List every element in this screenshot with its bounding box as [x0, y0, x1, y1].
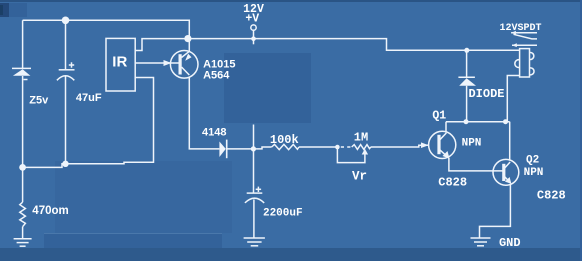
- zener Z5v minus tick: [24, 79, 28, 81]
- resistor 100k zigzag: [272, 144, 299, 149]
- svg-text:NPN: NPN: [524, 167, 544, 179]
- svg-text:DIODE: DIODE: [468, 87, 504, 101]
- wire: 470om top lead: [22, 167, 24, 202]
- transistor Q1 collector diagonal: [440, 133, 447, 140]
- svg-text:4148: 4148: [202, 127, 226, 139]
- diode DIODE cathode bar: [458, 76, 475, 78]
- transistor Q1 circle: [429, 131, 456, 158]
- wire: A1015 collector lead down to 4148: [189, 77, 219, 149]
- diode 4148 cathode bar: [226, 140, 228, 159]
- zener diode Z5v triangle (apex up): [13, 69, 31, 76]
- svg-text:Vr: Vr: [352, 170, 367, 184]
- wire: Q1 collector lead: [445, 122, 447, 133]
- svg-text:Q2: Q2: [526, 154, 539, 166]
- capacitor 2200uF plus sign: [256, 188, 261, 190]
- background shade: center dark rectangle: [224, 53, 311, 123]
- svg-text:470om: 470om: [32, 205, 68, 217]
- capacitor 2200uF top plate: [247, 192, 263, 194]
- svg-text:47uF: 47uF: [76, 92, 102, 104]
- transistor Q2 circle: [493, 159, 519, 185]
- wire: main +V rail y=38.6 from IR pin A jog to relay coil, step down at x=386.5: [135, 39, 519, 51]
- relay coil rectangle: [520, 49, 530, 77]
- transistor A1015 base bar: [179, 54, 182, 74]
- capacitor 47uF curved plate: [57, 76, 74, 81]
- background shade: bottom strip: [0, 248, 582, 261]
- wire: zener top lead: [22, 20, 24, 68]
- relay coil bump right bottom: [530, 68, 535, 75]
- background shade: right edge strip: [580, 0, 582, 261]
- svg-text:IR: IR: [112, 54, 127, 71]
- wire: DIODE branch vertical from rail: [466, 50, 468, 77]
- wire: 100k to 1M pot junction: [299, 146, 338, 148]
- arrowhead: pot 1M wiper up: [362, 149, 368, 155]
- svg-text:Z5v: Z5v: [29, 94, 49, 106]
- svg-text:1M: 1M: [354, 131, 368, 145]
- background shade: bottom-left rectangle top highlight: [44, 233, 222, 234]
- wire: Q1 emitter down then right to Q2 base: [449, 158, 503, 171]
- wire: 47uF bottom lead: [65, 76, 67, 164]
- background shade: left edge blotch: [0, 3, 27, 17]
- wire: under Q1 base arrow to transistor: [422, 144, 429, 146]
- ground GND1 (below 470om): [14, 239, 32, 246]
- junction node: top rail / 47uF: [62, 17, 70, 25]
- svg-text:Q1: Q1: [432, 110, 446, 123]
- svg-text:2200uF: 2200uF: [263, 207, 303, 219]
- capacitor 47uF top plate: [59, 69, 75, 71]
- arrowhead: relay lower contact left: [512, 43, 517, 47]
- relay coil bump left middle: [515, 60, 520, 68]
- wire: 1M to Q1 base with jog: [371, 145, 422, 147]
- junction node: rail / diode branch: [464, 48, 469, 53]
- junction node: diode / collector bus: [464, 119, 469, 124]
- ground GND2 (below 2200uF): [244, 238, 265, 246]
- wire: IR pin B base wire to A1015: [135, 62, 179, 64]
- zener diode Z5v cathode bar: [12, 67, 31, 69]
- arrowhead: relay upper contact left: [511, 31, 516, 35]
- svg-text:12VSPDT: 12VSPDT: [499, 23, 541, 34]
- terminal +V open circle: [251, 25, 256, 30]
- diode DIODE triangle (apex up): [459, 78, 476, 86]
- junction node: 1M wiper: [335, 145, 340, 150]
- transistor U1 A1015 circle: [170, 51, 198, 79]
- potentiometer 1M zigzag: [352, 145, 371, 150]
- transistor Q2 emitter diagonal: [505, 177, 511, 184]
- svg-text:+V: +V: [245, 13, 259, 26]
- arrowhead: Q2 emitter (NPN out): [505, 177, 512, 184]
- junction node: relay / collector bus: [503, 119, 508, 124]
- transistor Q2 collector diagonal: [505, 162, 511, 168]
- capacitor 2200uF curved plate: [245, 198, 264, 203]
- svg-text:C828: C828: [438, 176, 467, 190]
- arrowhead: wire into Q1 base: [421, 142, 429, 148]
- wire: zener bottom lead: [22, 76, 24, 167]
- junction node: +V / rail: [251, 36, 256, 41]
- wire: 47uF top lead: [65, 20, 67, 69]
- junction node: ground bus / 47uF: [62, 161, 68, 167]
- svg-text:A564: A564: [203, 69, 230, 81]
- diode 4148 triangle: [219, 142, 225, 158]
- wire: dashed lead into 1M: [341, 146, 344, 148]
- svg-text:100k: 100k: [270, 133, 299, 147]
- junction node: 4148 / +V / 2200uF: [251, 146, 256, 151]
- wire: 2200uF top lead: [253, 149, 255, 193]
- pot wiper bracket from junction to wiper arrow: [337, 147, 365, 163]
- wire: 2200uF bottom lead: [253, 200, 255, 239]
- ground GND3 (below Q2): [471, 238, 491, 246]
- transistor Q1 emitter diagonal: [440, 150, 449, 158]
- svg-text:GND: GND: [499, 236, 521, 250]
- background shade: bottom-left dark rectangle: [44, 233, 222, 261]
- relay switch lower contact: [512, 44, 537, 46]
- wire: 4148 cathode to 100k with jog: [227, 147, 272, 149]
- resistor R 470om zigzag: [20, 202, 26, 227]
- wire: 470om bottom lead: [22, 227, 24, 239]
- wire: top rail from zener top to A1015 emitter corner: [23, 20, 190, 50]
- transistor A1015 emitter diagonal (top): [182, 51, 191, 58]
- wire: +V vertical lower part down to 4148 junction: [253, 125, 255, 149]
- transistor Q1 base bar: [437, 135, 440, 154]
- relay switch armature: [514, 34, 538, 39]
- junction node: rail / A1015 emitter: [184, 35, 191, 42]
- transistor A1015 collector diagonal (bottom): [182, 67, 190, 75]
- arrowhead: IR base wire into A1015: [164, 60, 172, 66]
- background shade: left edge mid blotch: [0, 3, 9, 17]
- background shade: lower-left subtle shade: [55, 161, 232, 233]
- wire: relay coil bottom lead down to collector bus: [507, 76, 519, 122]
- wire: Q2 collector lead up to bus: [509, 122, 511, 161]
- capacitor 47uF plus sign: [69, 64, 74, 66]
- arrowhead: A1015 emitter (PNP, pointing at bar): [185, 54, 191, 61]
- svg-text:NPN: NPN: [462, 138, 482, 150]
- wire: +V vertical stub from terminal through rail: [253, 30, 255, 44]
- background shade: left edge deep blotch: [0, 5, 3, 15]
- arrowhead: Q1 emitter (NPN out): [443, 151, 450, 159]
- wire: bottom-left ground bus from left dot to IR pin C: [23, 78, 154, 168]
- wire: collector bus y=121.7: [446, 121, 510, 123]
- wire: DIODE anode down to Q1 collector bus: [466, 86, 468, 122]
- relay switch upper contact: [511, 32, 537, 34]
- IR module box: [106, 38, 135, 91]
- svg-text:C828: C828: [537, 189, 566, 203]
- wire: Q2 emitter down, left, to ground: [480, 185, 511, 238]
- relay coil bump right top: [530, 52, 534, 59]
- junction node: ground bus left: [19, 164, 26, 171]
- background shade: top strip: [0, 0, 582, 2]
- transistor Q2 base bar: [502, 164, 505, 181]
